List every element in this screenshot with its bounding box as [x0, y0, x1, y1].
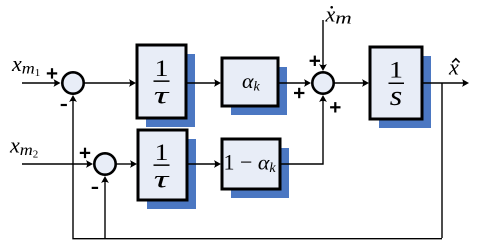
- node label xdot_m: [325, 2, 352, 28]
- block G2: 1/tau (bottom filter): [138, 130, 196, 209]
- svg-text:τ: τ: [154, 167, 170, 194]
- value label 1/tau (top block): [154, 56, 170, 110]
- wire: integrator output to x-hat: [422, 79, 469, 87]
- block G1: 1/tau (top filter): [137, 45, 195, 127]
- wire: feedback up into S2 (minus): [101, 176, 109, 238]
- wire: feedback up into S1 (minus): [69, 95, 77, 238]
- sign + at S3 bottom input: [330, 102, 340, 112]
- svg-text:s: s: [390, 81, 403, 112]
- value label 1 - alpha_k: [224, 150, 277, 177]
- sign + at S2 input: [80, 148, 90, 158]
- sign + at S1 input: [47, 68, 57, 78]
- svg-text:1: 1: [389, 58, 403, 84]
- node label x-hat (output): [448, 54, 460, 79]
- sign + at S3 left input: [294, 88, 304, 98]
- node label x_m1: [11, 51, 40, 79]
- svg-text:1 − αk: 1 − αk: [224, 150, 277, 177]
- sign - at S1 feedback: [61, 104, 67, 106]
- wire: bottom 1/tau to 1-alpha_k: [187, 160, 221, 168]
- wire: input x_m1 to S1: [22, 79, 61, 87]
- value label alpha_k: [242, 71, 261, 95]
- summing junction S2: [94, 153, 115, 174]
- svg-text:xm1: xm1: [11, 51, 40, 79]
- svg-text:xm: xm: [325, 2, 352, 28]
- block G4: 1-alpha_k gain: [222, 139, 289, 198]
- sign + at S3 top input: [310, 56, 320, 66]
- wire: feedback bottom run: [72, 238, 442, 240]
- wire: feedback branch down from output node: [441, 83, 443, 238]
- summing junction S3: [312, 72, 333, 93]
- wire: S3 to integrator 1/s: [334, 79, 369, 87]
- block G3: alpha_k gain: [222, 58, 287, 115]
- svg-text:xm2: xm2: [9, 133, 38, 161]
- svg-text:τ: τ: [154, 83, 170, 110]
- sign - at S2 feedback: [92, 187, 98, 189]
- wire: alpha_k to S3: [278, 79, 311, 87]
- value label 1/tau (bottom block): [154, 140, 170, 194]
- wire: 1-alpha_k up into S3 (plus): [280, 95, 327, 164]
- node label x_m2: [9, 133, 38, 161]
- svg-text:1: 1: [155, 140, 169, 166]
- wire: input x_m2 to S2: [22, 160, 93, 168]
- wire: top 1/tau to alpha_k: [186, 79, 221, 87]
- svg-text:1: 1: [155, 56, 169, 82]
- block G5: 1/s integrator: [370, 47, 431, 128]
- svg-text:x: x: [448, 54, 459, 79]
- wire: S2 to bottom 1/tau: [116, 160, 137, 168]
- summing junction S1: [62, 72, 83, 93]
- wire: S1 to top 1/tau: [84, 79, 136, 87]
- value label 1/s: [389, 58, 405, 113]
- wire: xdot_m input down into S3: [319, 20, 327, 71]
